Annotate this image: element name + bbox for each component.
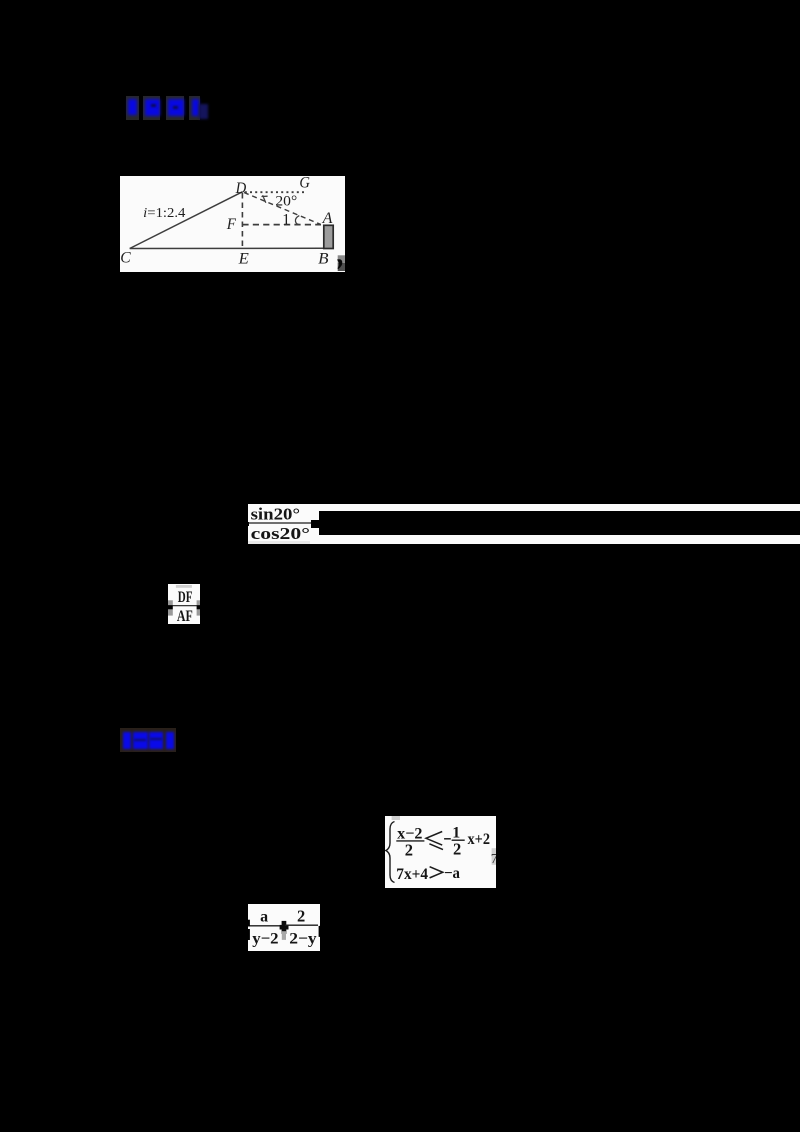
system of inequalities box xyxy=(385,816,496,888)
fraction bar xyxy=(168,605,200,607)
black overlay on strip xyxy=(319,511,800,535)
gray remnant 7 at right edge xyxy=(492,848,496,865)
sin20/cos20 fraction strip xyxy=(248,504,800,544)
top gray strip xyxy=(176,585,192,588)
wire dotted D-G xyxy=(244,191,303,193)
dark backing of 点评 label xyxy=(120,728,176,752)
leq sign xyxy=(426,832,443,850)
blue glyph blobs of 【点评】 xyxy=(123,732,132,749)
svg-text:cos20°: cos20° xyxy=(251,524,310,543)
svg-text:A: A xyxy=(321,210,332,227)
svg-text:i=1:2.4: i=1:2.4 xyxy=(143,206,185,221)
figure white background xyxy=(120,176,345,272)
tiny black tick at strip left edge xyxy=(247,522,248,527)
svg-text:sin20°: sin20° xyxy=(251,504,300,523)
light gray bottom edge of fraction cell xyxy=(248,541,310,544)
wire dashed vertical D-E xyxy=(241,193,243,248)
svg-text:2: 2 xyxy=(453,839,461,858)
svg-text:7x+4: 7x+4 xyxy=(396,866,428,883)
svg-text:7: 7 xyxy=(491,852,496,867)
equals blob xyxy=(281,921,286,934)
geometry figure xyxy=(120,176,345,272)
black notch left of overlay xyxy=(311,520,319,528)
svg-text:a: a xyxy=(260,908,268,925)
angle arc near D xyxy=(261,195,267,203)
wire slope C-D xyxy=(129,192,242,249)
edge notches xyxy=(248,919,250,926)
svg-text:D: D xyxy=(234,180,246,197)
svg-text:C: C xyxy=(120,250,131,267)
svg-text:F: F xyxy=(225,216,235,233)
minus xyxy=(444,838,451,840)
svg-text:20°: 20° xyxy=(275,194,297,210)
svg-text:2−y: 2−y xyxy=(289,930,317,947)
building rectangle at B xyxy=(323,225,332,248)
svg-text:−a: −a xyxy=(444,865,460,882)
left fraction bar xyxy=(248,924,279,926)
svg-text:E: E xyxy=(237,250,248,267)
greater sign xyxy=(430,867,443,878)
right fraction bar xyxy=(284,924,317,926)
brace xyxy=(386,822,395,883)
angle mark near A xyxy=(295,216,299,225)
title 【分析】 blue blurred label xyxy=(126,95,214,121)
DF/AF fraction box xyxy=(168,584,200,624)
svg-text:2: 2 xyxy=(296,906,304,925)
left edge marks xyxy=(168,600,173,605)
svg-text:B: B xyxy=(318,250,329,267)
svg-text:G: G xyxy=(299,176,310,192)
a/(y-2) = 2/(2-y) box xyxy=(248,904,321,952)
svg-text:DF: DF xyxy=(178,589,193,606)
svg-text:y−2: y−2 xyxy=(252,930,278,947)
svg-text:x+2: x+2 xyxy=(468,831,491,848)
svg-text:2: 2 xyxy=(405,840,413,859)
comma block bottom-right xyxy=(337,255,344,262)
svg-text:1: 1 xyxy=(282,211,290,228)
wire dashed F-A xyxy=(242,224,321,226)
svg-text:AF: AF xyxy=(177,608,193,624)
wire baseline C-B xyxy=(129,247,323,249)
right edge marks xyxy=(197,600,200,605)
wire dashed D-A xyxy=(244,193,321,225)
gray tab top-left xyxy=(392,816,400,820)
